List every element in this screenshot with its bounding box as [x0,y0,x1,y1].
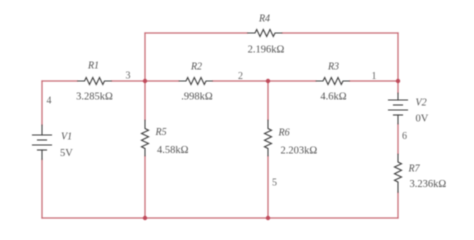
wire top loop left vertical [144,33,146,81]
svg-text:R7: R7 [408,164,421,175]
svg-text:V1: V1 [61,132,72,143]
svg-text:2: 2 [238,71,243,82]
resistor R2 [179,78,213,85]
svg-text:R5: R5 [155,127,167,138]
wire middle: R1 to R2 (node 3) [112,80,180,82]
resistor R4 [248,30,283,37]
svg-text:R1: R1 [87,61,99,72]
svg-text:.998kΩ: .998kΩ [181,92,213,103]
svg-text:3.236kΩ: 3.236kΩ [410,179,447,190]
svg-text:3.285kΩ: 3.285kΩ [76,92,113,103]
svg-text:3: 3 [126,71,131,82]
svg-text:2.196kΩ: 2.196kΩ [248,45,285,56]
wire R6 branch upper [267,81,269,120]
wire middle: R2 to R3 (node 2) [213,80,317,82]
svg-text:R3: R3 [327,62,339,73]
battery V2 [389,93,408,124]
junction node 2 [266,79,270,83]
junction bottom left [143,216,147,220]
wire left vertical bottom [41,160,43,219]
resistor R7 [395,154,402,193]
wire V2 to R7 (node 6) [397,124,399,154]
wire top loop right vertical [397,33,399,81]
svg-text:5V: 5V [60,148,73,159]
junction bottom right [266,216,270,220]
junction node 3 [143,79,147,83]
wire top loop: R4 to right corner [282,32,398,34]
wire R5 branch upper [144,81,146,120]
svg-text:4: 4 [47,96,52,107]
wire middle: left end to R1 [42,80,78,82]
wire left vertical top (node 4) [41,81,43,125]
wire R5 branch lower [144,156,146,218]
battery V1 [33,125,52,160]
svg-text:6: 6 [402,131,407,142]
wire R7 bottom lead [397,193,399,219]
wire middle: R3 to right junction (node 1) [350,80,399,82]
svg-text:R4: R4 [258,14,270,25]
svg-text:R2: R2 [190,62,202,73]
wire bottom horizontal [42,217,398,219]
svg-text:V2: V2 [416,98,427,109]
wire top loop: left corner to R4 [145,32,248,34]
svg-text:0V: 0V [416,114,429,125]
resistor R3 [316,78,350,85]
resistor R6 [265,120,272,156]
svg-text:R6: R6 [278,128,290,139]
wire R6 branch lower [267,156,269,218]
svg-text:4.6kΩ: 4.6kΩ [320,92,346,103]
svg-text:1: 1 [372,71,377,82]
svg-text:2.203kΩ: 2.203kΩ [281,146,318,157]
svg-text:4.58kΩ: 4.58kΩ [157,145,189,156]
resistor R1 [78,78,112,85]
wire V2 top lead [397,81,399,93]
resistor R5 [142,120,149,156]
junction node 1 [396,79,400,83]
svg-text:5: 5 [272,178,277,189]
